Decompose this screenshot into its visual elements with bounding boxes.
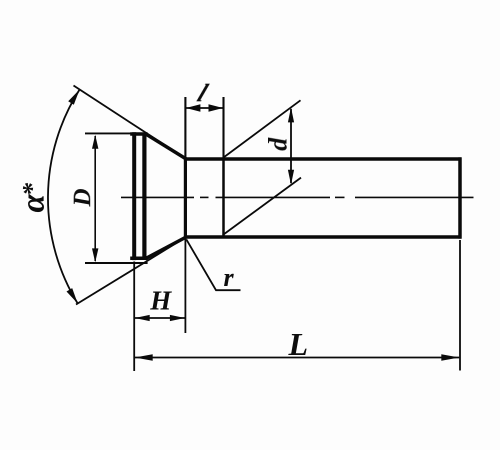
angle label α* <box>16 182 52 213</box>
countersunk cone top edge <box>145 134 186 159</box>
bore line across shank at l (vertical line) <box>222 159 225 237</box>
centerline (dash-dot axis) <box>121 196 474 198</box>
svg-text:d: d <box>264 137 293 151</box>
shank bottom edge <box>185 235 462 239</box>
shank end edge (right vertical) <box>458 157 462 238</box>
angle construction line top (cone surface extension) <box>74 86 186 159</box>
shank top edge <box>185 157 462 161</box>
rivet head bottom edge <box>130 257 147 261</box>
rivet head top edge <box>130 132 147 136</box>
svg-text:*: * <box>18 182 47 196</box>
angle construction line bottom (cone surface extension) <box>76 238 185 305</box>
svg-text:D: D <box>69 188 96 207</box>
label H (head height) <box>149 286 172 316</box>
dimension H extension line, dimension line and arrows <box>134 262 185 372</box>
label l <box>193 79 212 107</box>
label L (rivet length) <box>288 326 309 362</box>
dimension d oblique extension lines, dimension line and arrows <box>223 100 301 235</box>
svg-text:r: r <box>224 263 235 292</box>
label d (shank diameter) <box>264 137 293 151</box>
label D (head diameter) <box>69 188 96 207</box>
dimension L extension line, dimension line and arrows <box>134 240 460 371</box>
leader line for fillet radius <box>186 239 240 290</box>
svg-text:L: L <box>288 326 309 362</box>
label r (fillet radius) <box>224 263 235 292</box>
countersunk cone bottom edge <box>145 237 186 259</box>
dimension D extension lines, dimension line and arrows <box>85 133 148 263</box>
svg-text:H: H <box>149 286 172 316</box>
rivet head inner vertical line <box>142 133 146 260</box>
dimension l extension lines, dimension line and arrows <box>185 97 223 333</box>
cone-shank junction edge (vertical line across shank) <box>184 159 187 237</box>
rivet head flat face (left vertical line) <box>132 132 136 260</box>
angle dimension arc with arrows <box>48 90 80 304</box>
